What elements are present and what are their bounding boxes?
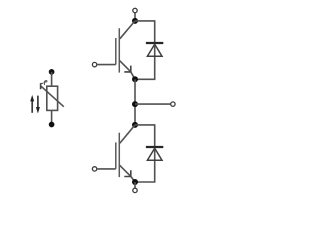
terminal C (top) bbox=[133, 8, 137, 12]
terminal E (bottom) bbox=[133, 188, 137, 192]
igbt Q1 emitter lead bbox=[119, 60, 135, 79]
igbt Q2 gate terminal bbox=[92, 167, 96, 171]
diode D2 cathode bar bbox=[146, 146, 163, 148]
igbt Q2 collector lead bbox=[120, 125, 135, 143]
igbt Q2 gate bar bbox=[115, 142, 117, 169]
wire midrail bbox=[134, 79, 136, 125]
thermistor R1 diagonal bbox=[41, 86, 64, 107]
igbt Q2 emitter arrowhead bbox=[124, 170, 131, 176]
thermistor t-degree mark bbox=[44, 81, 47, 86]
diode D2 triangle bbox=[147, 148, 162, 160]
igbt Q1 collector lead bbox=[120, 21, 135, 39]
node OUT junction dot bbox=[132, 101, 138, 107]
node E1 junction dot bbox=[132, 76, 138, 82]
igbt Q2 main bar bbox=[118, 133, 120, 177]
thermistor foot horizontal bbox=[41, 82, 44, 84]
node E2 junction dot bbox=[132, 179, 138, 185]
thermistor R1 top terminal dot bbox=[49, 69, 55, 75]
wire gate Q1 bbox=[97, 64, 116, 66]
thermistor R1 bottom terminal dot bbox=[49, 122, 55, 128]
wire bbox=[51, 72, 53, 86]
wire top diode branch bbox=[135, 21, 155, 79]
wire bbox=[134, 13, 136, 21]
diode D1 triangle bbox=[147, 44, 162, 56]
wire output bbox=[135, 103, 171, 105]
igbt Q1 gate bar bbox=[115, 38, 117, 65]
wire bbox=[51, 110, 53, 124]
wire bottom diode branch bbox=[135, 125, 155, 182]
thermistor R1 foot bbox=[40, 83, 42, 89]
node C2 junction dot bbox=[132, 122, 138, 128]
wire bbox=[134, 182, 136, 188]
wire gate Q2 bbox=[97, 168, 116, 170]
igbt Q1 emitter arrowhead bbox=[124, 66, 131, 72]
up arrow bbox=[30, 95, 34, 113]
igbt Q1 main bar bbox=[118, 28, 120, 72]
node C1 junction dot bbox=[132, 18, 138, 24]
down arrow bbox=[36, 96, 40, 114]
igbt Q1 gate terminal bbox=[92, 62, 96, 66]
terminal OUT bbox=[171, 102, 175, 106]
igbt Q2 emitter lead bbox=[119, 165, 135, 182]
thermistor R1 body bbox=[47, 86, 58, 110]
diode D1 cathode bar bbox=[146, 42, 163, 44]
